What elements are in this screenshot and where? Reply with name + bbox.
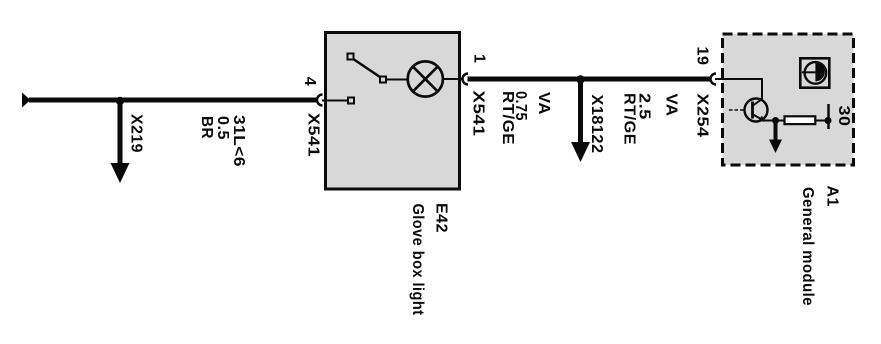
node X219 junction dot	[116, 97, 124, 105]
svg-text:VA: VA	[663, 94, 680, 117]
node X18122 junction dot	[576, 75, 584, 83]
wire inside box from pin 4 to switch contact	[322, 100, 347, 102]
internal ground arrow	[769, 121, 782, 154]
ground arrow X18122	[571, 79, 590, 162]
junction dot at terminal 30	[825, 117, 832, 124]
connector arc at pin 19	[711, 74, 717, 85]
module label A1 / General module	[799, 186, 841, 307]
switch blade	[354, 60, 380, 78]
svg-text:X18122: X18122	[588, 95, 605, 154]
lamp E42 (circle with X)	[408, 61, 443, 96]
wire label 2.5 RT/GE	[621, 93, 653, 145]
connector arc at pin 1	[463, 74, 469, 85]
wire switch to lamp	[386, 79, 407, 81]
wire emitter to terminal 30	[762, 120, 828, 122]
wire label 0.75 RT/GE	[499, 91, 529, 145]
resistor R	[785, 116, 816, 124]
svg-text:VA: VA	[535, 92, 552, 115]
switch contact (lower, pin 4 side)	[348, 98, 354, 104]
svg-text:0.5: 0.5	[214, 116, 231, 140]
transistor base lead (dotted)	[729, 109, 745, 111]
terminal 30 bar	[827, 104, 830, 129]
general module A1 body (dashed)	[723, 34, 854, 165]
svg-text:2.5: 2.5	[636, 93, 653, 120]
svg-text:31L<6: 31L<6	[230, 115, 247, 167]
svg-text:4: 4	[301, 77, 318, 86]
svg-text:1: 1	[471, 54, 488, 63]
svg-text:General module: General module	[799, 187, 816, 306]
ground arrow X219	[111, 100, 130, 183]
junction dot at internal ground	[772, 117, 779, 124]
switch contact (common, lamp side)	[380, 77, 386, 83]
svg-text:Glove box light: Glove box light	[409, 204, 426, 316]
svg-text:X541: X541	[470, 91, 487, 137]
svg-text:E42: E42	[433, 203, 450, 233]
svg-text:X541: X541	[305, 113, 322, 157]
module label E42 / Glove box light	[409, 203, 450, 316]
svg-text:19: 19	[694, 47, 711, 66]
wire start arrow (feed from left)	[22, 93, 31, 108]
wire inside A1: pin 19 to transistor collector	[715, 79, 762, 99]
svg-text:0.75: 0.75	[512, 91, 529, 121]
electronics icon (square with circle)	[800, 58, 829, 87]
wire label 31L<6 / 0.5 / BR	[198, 115, 247, 167]
svg-text:A1: A1	[824, 186, 841, 207]
transistor Q (electronic switch)	[745, 99, 768, 122]
glove box E42 module body	[326, 33, 460, 190]
svg-text:X219: X219	[128, 114, 145, 153]
switch contact (upper left)	[348, 54, 354, 60]
wire lamp to pin 1	[444, 78, 463, 80]
connector arc at pin 4	[317, 95, 323, 106]
svg-text:RT/GE: RT/GE	[621, 93, 638, 145]
wire: glove box pin1 to general module pin 19	[468, 77, 711, 82]
wire: feed to glove box pin 4	[29, 98, 317, 103]
svg-text:X254: X254	[694, 94, 711, 138]
svg-text:BR: BR	[198, 116, 215, 139]
svg-text:30: 30	[835, 106, 852, 127]
